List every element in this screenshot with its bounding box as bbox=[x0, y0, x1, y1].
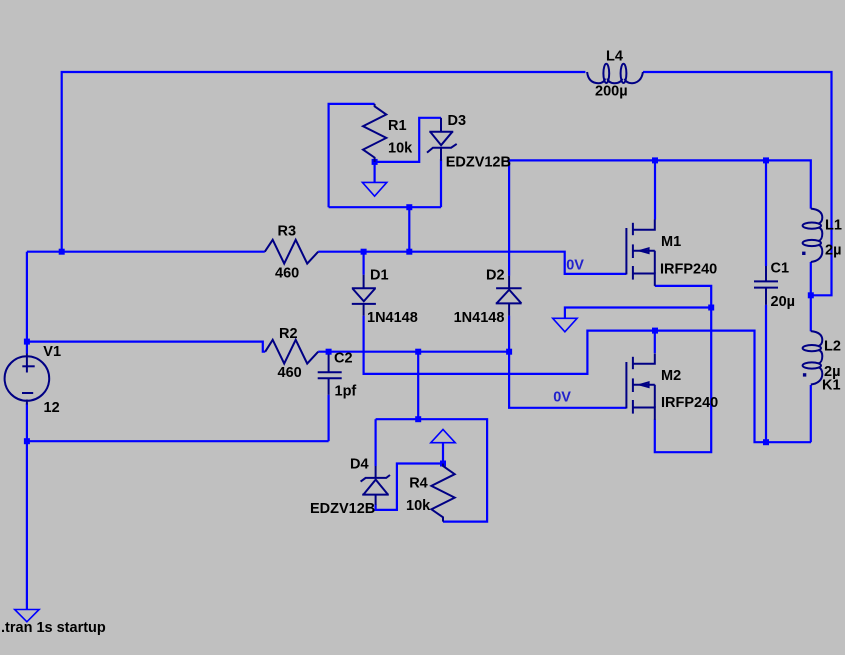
svg-text:EDZV12B: EDZV12B bbox=[310, 501, 375, 517]
wire bbox=[329, 206, 441, 208]
wire bbox=[654, 331, 656, 354]
svg-text:1N4148: 1N4148 bbox=[454, 310, 505, 326]
wire bbox=[318, 351, 509, 353]
wire bbox=[364, 316, 811, 443]
svg-text:R2: R2 bbox=[279, 326, 298, 342]
svg-text:R4: R4 bbox=[409, 476, 428, 492]
inductor L4 bbox=[587, 64, 643, 83]
svg-text:12: 12 bbox=[44, 400, 60, 416]
L2 phase dot bbox=[803, 373, 806, 376]
wire bbox=[328, 395, 330, 441]
svg-text:L4: L4 bbox=[606, 49, 623, 65]
wire bbox=[810, 385, 812, 442]
resistor R4 bbox=[431, 464, 454, 522]
wire bbox=[765, 305, 767, 442]
svg-text:460: 460 bbox=[275, 266, 299, 282]
svg-text:D2: D2 bbox=[486, 268, 505, 284]
wire bbox=[376, 464, 443, 510]
node junction bbox=[361, 249, 367, 255]
svg-text:D4: D4 bbox=[350, 457, 369, 473]
ground (M1 source) bbox=[553, 318, 577, 332]
svg-text:10k: 10k bbox=[406, 498, 431, 514]
wire bbox=[810, 262, 812, 331]
svg-text:0V: 0V bbox=[566, 257, 584, 273]
wire bbox=[643, 72, 832, 295]
node junction bbox=[415, 416, 421, 422]
node junction bbox=[652, 328, 658, 334]
svg-text:C1: C1 bbox=[771, 261, 790, 277]
wire bbox=[363, 252, 365, 275]
svg-text:M2: M2 bbox=[661, 368, 681, 384]
svg-text:M1: M1 bbox=[661, 234, 681, 250]
node junction bbox=[415, 349, 421, 355]
capacitor C2 bbox=[318, 355, 342, 395]
resistor R2 bbox=[265, 340, 318, 364]
diode D2 bbox=[496, 276, 522, 316]
wire bbox=[509, 160, 811, 208]
wire bbox=[27, 440, 329, 442]
svg-text:L1: L1 bbox=[825, 218, 842, 234]
svg-text:IRFP240: IRFP240 bbox=[661, 395, 718, 411]
wire bbox=[655, 308, 711, 453]
wire bbox=[509, 352, 626, 408]
resistor R1 bbox=[363, 104, 386, 162]
wire bbox=[62, 72, 586, 252]
wire bbox=[375, 419, 377, 466]
wire bbox=[318, 252, 626, 274]
node junction bbox=[808, 292, 814, 298]
nmos M2 bbox=[626, 354, 654, 420]
node junction bbox=[406, 249, 412, 255]
node junction bbox=[440, 461, 446, 467]
svg-text:1pf: 1pf bbox=[335, 384, 357, 400]
nmos M1 bbox=[626, 220, 654, 286]
svg-text:.tran 1s startup: .tran 1s startup bbox=[1, 620, 106, 636]
wire bbox=[442, 443, 444, 464]
ground (V1 bottom) bbox=[15, 610, 39, 622]
svg-text:460: 460 bbox=[278, 365, 302, 381]
svg-text:20µ: 20µ bbox=[771, 294, 795, 310]
node junction bbox=[59, 249, 65, 255]
wire bbox=[27, 251, 265, 253]
node junction bbox=[326, 349, 332, 355]
wire bbox=[26, 252, 28, 342]
svg-text:D1: D1 bbox=[370, 268, 389, 284]
svg-text:EDZV12B: EDZV12B bbox=[446, 155, 511, 171]
wire bbox=[329, 104, 375, 207]
inductor L2 bbox=[803, 331, 823, 384]
ground (R4 top, inverted) bbox=[431, 429, 455, 442]
svg-text:V1: V1 bbox=[43, 344, 61, 360]
node junction bbox=[372, 159, 378, 165]
svg-text:IRFP240: IRFP240 bbox=[660, 262, 717, 278]
svg-text:L2: L2 bbox=[824, 339, 841, 355]
diode D1 bbox=[352, 275, 376, 316]
svg-text:1N4148: 1N4148 bbox=[367, 310, 418, 326]
wire bbox=[765, 160, 767, 266]
voltage source V1 bbox=[5, 354, 50, 405]
inductor L1 bbox=[803, 209, 823, 262]
node junction bbox=[763, 157, 769, 163]
wire bbox=[408, 207, 410, 252]
svg-text:R3: R3 bbox=[278, 224, 297, 240]
wire bbox=[655, 286, 711, 308]
wire bbox=[375, 118, 441, 162]
wire bbox=[376, 419, 488, 521]
node junction bbox=[708, 305, 714, 311]
svg-text:10k: 10k bbox=[388, 141, 413, 157]
node junction bbox=[406, 204, 412, 210]
wire bbox=[565, 308, 711, 319]
svg-text:C2: C2 bbox=[334, 351, 353, 367]
svg-text:K1 L1 L2 1: K1 L1 L2 1 bbox=[822, 378, 845, 394]
zener diode D4 bbox=[361, 466, 390, 505]
svg-text:2µ: 2µ bbox=[825, 243, 841, 259]
wire bbox=[417, 352, 419, 420]
node junction bbox=[763, 439, 769, 445]
wire bbox=[26, 342, 28, 354]
node junction bbox=[24, 339, 30, 345]
wire bbox=[27, 342, 265, 352]
svg-text:0V: 0V bbox=[553, 390, 571, 406]
wire bbox=[508, 160, 510, 275]
node junction bbox=[652, 157, 658, 163]
ground (R1 bottom) bbox=[362, 182, 386, 196]
node junction bbox=[24, 438, 30, 444]
zener diode D3 bbox=[427, 118, 457, 161]
svg-text:D3: D3 bbox=[448, 113, 467, 129]
L1 phase dot bbox=[802, 252, 805, 255]
wire bbox=[374, 162, 376, 183]
wire bbox=[508, 316, 510, 352]
svg-text:R1: R1 bbox=[388, 118, 407, 134]
resistor R3 bbox=[265, 240, 318, 264]
node junction bbox=[506, 349, 512, 355]
wire bbox=[26, 404, 28, 442]
wire bbox=[440, 159, 442, 207]
svg-text:200µ: 200µ bbox=[595, 84, 628, 100]
wire bbox=[26, 441, 28, 609]
wire bbox=[654, 160, 656, 219]
capacitor C1 bbox=[754, 266, 778, 305]
